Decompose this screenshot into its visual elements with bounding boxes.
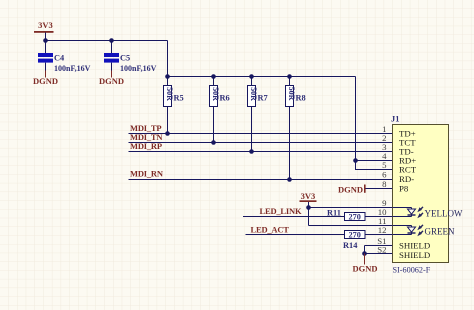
wire 3V3b stem — [308, 202, 310, 208]
svg-text:R6: R6 — [220, 94, 230, 103]
svg-text:R8: R8 — [296, 94, 306, 103]
svg-text:100nF,16V: 100nF,16V — [54, 64, 91, 73]
ground DGND at shield — [352, 254, 377, 274]
svg-text:LED_ACT: LED_ACT — [251, 225, 290, 235]
svg-text:P8: P8 — [399, 184, 409, 194]
wire 3V3 rail horizontal — [46, 40, 168, 42]
wire MDI_TN — [129, 142, 393, 144]
svg-text:YELLOW: YELLOW — [425, 208, 463, 218]
wire LED_LINK to R11 — [243, 216, 345, 218]
node junction rail/R5 — [165, 74, 170, 79]
svg-text:6: 6 — [382, 170, 387, 180]
resistor R7 — [248, 77, 268, 152]
node junction pin4 branch — [353, 158, 358, 163]
wire 3V3 stem — [45, 33, 47, 41]
wire shield drop — [364, 246, 366, 254]
svg-text:SHIELD: SHIELD — [399, 250, 430, 260]
wire 3V3b drop to pin 11 — [308, 208, 310, 226]
svg-text:RD-: RD- — [399, 174, 414, 184]
svg-text:DGND: DGND — [99, 76, 124, 86]
svg-text:3V3: 3V3 — [301, 191, 316, 201]
power port 3V3 (top left) — [34, 20, 54, 33]
wire pin 9 — [309, 207, 393, 209]
svg-text:3V3: 3V3 — [38, 20, 53, 30]
svg-text:DGND: DGND — [33, 76, 58, 86]
node junction 3V3b/pin9 — [306, 205, 311, 210]
wire MDI_TP — [129, 133, 393, 135]
svg-text:MDI_RN: MDI_RN — [130, 169, 164, 179]
node junction rail/R7 — [249, 74, 254, 79]
svg-text:100nF,16V: 100nF,16V — [120, 64, 157, 73]
resistor R6 — [210, 77, 230, 143]
resistor R5 — [164, 77, 184, 134]
svg-text:270: 270 — [349, 213, 361, 222]
wire R14 to pin 12 — [365, 234, 393, 236]
capacitor C4 — [38, 41, 91, 74]
wire shield S1 — [365, 245, 393, 247]
wire resistor rail — [168, 76, 356, 78]
capacitor C5 — [104, 41, 157, 74]
resistor R11 — [327, 209, 365, 222]
wire shield S2 — [365, 253, 393, 255]
svg-text:DGND: DGND — [338, 184, 363, 194]
node junction 3V3/C4 — [43, 38, 48, 43]
resistor R8 — [286, 77, 306, 180]
svg-text:SHIELD: SHIELD — [399, 240, 430, 250]
LED green (inside J1, pins 11-12) — [393, 226, 416, 235]
ground DGND under C4 — [33, 71, 58, 87]
node junction rail/R8 — [287, 74, 292, 79]
LED green emission arrows — [417, 224, 423, 230]
node junction R6/MDI_TN — [211, 140, 216, 145]
svg-text:R11: R11 — [327, 209, 341, 218]
node junction shield — [362, 251, 367, 256]
wire pin 11 — [309, 225, 393, 227]
resistor R14 — [343, 231, 365, 251]
svg-text:12: 12 — [378, 225, 387, 235]
svg-text:SI-60062-F: SI-60062-F — [393, 266, 431, 275]
svg-text:270: 270 — [349, 231, 361, 240]
svg-text:RCT: RCT — [399, 165, 417, 175]
svg-text:R14: R14 — [343, 241, 358, 250]
ground DGND at pin 8 — [338, 184, 366, 194]
wire rail drop to resistor rail — [167, 41, 169, 77]
node junction R7/MDI_RP — [249, 149, 254, 154]
node junction R8/MDI_RN — [287, 177, 292, 182]
svg-text:5: 5 — [382, 160, 387, 170]
node junction rail/R6 — [211, 74, 216, 79]
wire rail drop to pins 4/5 — [355, 77, 357, 161]
svg-text:J1: J1 — [391, 115, 399, 124]
LED yellow (inside J1, pins 9-10) — [393, 208, 416, 217]
svg-text:MDI_RP: MDI_RP — [130, 141, 162, 151]
svg-text:GREEN: GREEN — [425, 226, 455, 236]
wire MDI_RN — [129, 179, 393, 181]
svg-text:R5: R5 — [174, 94, 184, 103]
svg-text:DGND: DGND — [352, 264, 377, 274]
svg-text:C4: C4 — [54, 54, 65, 63]
wire LED_ACT to R14 — [246, 234, 345, 236]
node junction R5/MDI_TP — [165, 131, 170, 136]
svg-text:8: 8 — [382, 179, 387, 189]
node junction C5 — [109, 38, 114, 43]
svg-text:S2: S2 — [377, 245, 386, 255]
LED yellow emission arrows — [417, 206, 423, 212]
wire branch to pin 4 — [356, 160, 393, 162]
connector J1 body — [391, 115, 449, 275]
svg-text:C5: C5 — [120, 54, 130, 63]
power port 3V3 (LED section) — [300, 191, 317, 202]
wire drop to pin 5 — [356, 161, 393, 170]
wire pin 8 — [366, 188, 393, 190]
svg-text:R7: R7 — [258, 94, 268, 103]
wire MDI_RP — [129, 151, 393, 153]
svg-text:LED_LINK: LED_LINK — [260, 206, 302, 216]
ground DGND under C5 — [99, 71, 124, 87]
wire R11 to pin 10 — [365, 216, 393, 218]
